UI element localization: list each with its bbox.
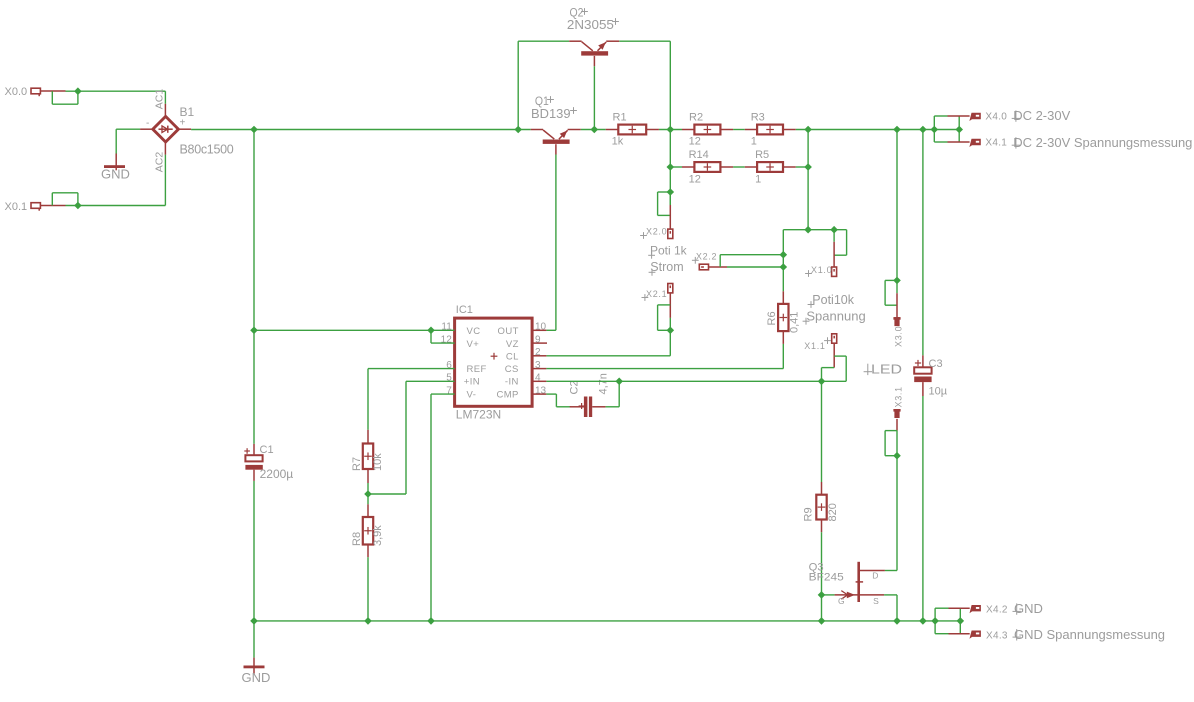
svg-text:X0.0: X0.0 (5, 86, 28, 98)
svg-text:BF245: BF245 (809, 572, 844, 584)
ground GND bottom (242, 621, 271, 685)
wire R7 R8 junction (368, 381, 455, 504)
junction rail gate (818, 617, 826, 625)
connector pin X0.1 (5, 201, 66, 213)
node label GND right (1013, 601, 1043, 616)
wire R14 row (670, 130, 808, 206)
svg-text:12: 12 (689, 136, 701, 148)
connector pin X4.2 (949, 605, 1008, 616)
svg-text:4,7n: 4,7n (598, 373, 610, 394)
connector pin X0.0 (5, 86, 66, 98)
resistor R14 12 (682, 149, 733, 185)
wire X3.1 loop (885, 431, 897, 456)
svg-text:GND Spannungsmessung: GND Spannungsmessung (1014, 627, 1165, 642)
wire -IN (546, 380, 821, 382)
junction X4.2 loop (957, 617, 965, 625)
wire -IN down to R9 (821, 381, 823, 482)
svg-text:G: G (838, 596, 845, 606)
svg-text:X0.1: X0.1 (5, 201, 28, 213)
wire R9 to Q3 gate (821, 532, 823, 595)
wire X2.1 loop (658, 305, 671, 330)
resistor R3 1 (745, 112, 796, 148)
IC1 left pin names (464, 326, 487, 400)
junction rail C3 (919, 617, 927, 625)
svg-text:2200µ: 2200µ (260, 467, 294, 481)
svg-text:-IN: -IN (505, 377, 519, 388)
junction bus X4 branch (931, 126, 939, 134)
wire input rail down (253, 130, 255, 621)
capacitor C1 2200u (244, 444, 293, 481)
svg-text:GND: GND (1014, 601, 1043, 616)
resistor R7 10k (351, 430, 384, 483)
wire X4.2 loop (935, 608, 960, 634)
svg-text:Poti 1k: Poti 1k (650, 244, 688, 258)
svg-text:DC 2-30V Spannungsmessung: DC 2-30V Spannungsmessung (1013, 135, 1192, 150)
svg-text:D: D (872, 571, 879, 581)
junction rail Q3 source (893, 617, 901, 625)
junction bus Q2 base (591, 126, 599, 134)
svg-text:R6: R6 (766, 311, 778, 325)
svg-text:LED: LED (871, 362, 902, 377)
svg-text:OUT: OUT (498, 326, 519, 337)
capacitor C2 4,7n (569, 373, 610, 417)
node label DC 2-30V (1012, 108, 1071, 123)
capacitor C3 10u (914, 355, 948, 397)
svg-text:X3.1: X3.1 (894, 386, 904, 407)
svg-text:R2: R2 (689, 112, 703, 124)
junction R6 X2.2 upper (780, 251, 788, 259)
op-amp IC1 LM723N box (455, 304, 532, 422)
wire Q3 source down (884, 595, 897, 621)
resistor R5 1 (745, 149, 796, 185)
junction bus x254 (250, 126, 258, 134)
svg-text:C1: C1 (260, 444, 274, 456)
svg-text:820: 820 (827, 503, 839, 521)
svg-text:R3: R3 (751, 112, 765, 124)
wire Q1 base to IC1 OUT (546, 155, 556, 331)
wire VC V+ to bus (254, 330, 455, 343)
junction rail X4 (931, 617, 939, 625)
svg-text:CMP: CMP (496, 389, 518, 400)
svg-text:0,41: 0,41 (789, 312, 801, 333)
wire CL to X2.1 (546, 330, 670, 356)
resistor R2 12 (682, 112, 733, 148)
IC1 pin stubs right (532, 330, 547, 394)
junction bus R1 right (667, 126, 675, 134)
svg-text:V+: V+ (467, 339, 480, 350)
junction bus Q2 collector (514, 126, 522, 134)
svg-text:VZ: VZ (506, 339, 519, 350)
connector pin X2.2 (692, 252, 727, 270)
svg-text:REF: REF (467, 364, 487, 375)
resistor R6 0,41 (766, 291, 801, 344)
junction poti10k X1.0 (830, 226, 838, 234)
junction rail x431 (427, 617, 435, 625)
svg-text:CL: CL (506, 352, 519, 363)
junction X3.0 node (893, 277, 901, 285)
junction X3.1 node (893, 452, 901, 460)
wire CMP to C2 (546, 394, 570, 407)
svg-text:X1.1: X1.1 (804, 341, 825, 351)
svg-text:3,9k: 3,9k (372, 525, 384, 546)
svg-text:B80c1500: B80c1500 (180, 143, 234, 157)
wire REF to R7 (368, 369, 455, 430)
junction poti10k R5 (804, 226, 812, 234)
svg-text:R5: R5 (755, 149, 769, 161)
IC1 right pin names (496, 326, 518, 400)
junction R6 X2.2 lower (780, 263, 788, 271)
svg-text:Poti10k: Poti10k (812, 293, 854, 307)
wire C3 to ground rail (922, 396, 924, 621)
label Poti 1k Strom (648, 244, 687, 276)
wire Q3 drain up (885, 456, 897, 571)
wire R5 right down (807, 130, 809, 230)
wire X2.0 loop (658, 192, 671, 215)
svg-text:+: + (180, 118, 186, 129)
junction X4 loop (955, 126, 963, 134)
wire ground rail (254, 620, 935, 622)
wire bus down to C3 (922, 130, 924, 356)
junction X2.1 node (667, 327, 675, 335)
svg-text:GND: GND (101, 167, 130, 182)
svg-text:IC1: IC1 (456, 304, 473, 316)
wire X3.0 loop (885, 280, 897, 305)
connector pin X3.1 (893, 386, 903, 430)
junction -IN C2 (615, 378, 623, 386)
connector pin X2.1 (642, 284, 673, 318)
bridge rectifier B1 B80c1500 (140, 89, 234, 173)
svg-text:LM723N: LM723N (456, 408, 501, 422)
svg-text:X3.0: X3.0 (894, 326, 904, 347)
node label GND Spannungsmessung (1013, 627, 1166, 642)
svg-text:X4.1: X4.1 (985, 138, 1007, 149)
wire Q2 base down (593, 66, 595, 129)
wire X2.2 to R6 top (720, 255, 783, 267)
transistor Q1 BD139 (531, 94, 581, 155)
junction R14 left (667, 163, 675, 171)
svg-text:R8: R8 (351, 532, 363, 546)
junction bus C3 branch (919, 126, 927, 134)
node label DC 2-30V Spannungsmessung (1012, 135, 1193, 150)
junction rail x368 (364, 617, 372, 625)
svg-text:B1: B1 (180, 105, 195, 119)
resistor R8 3,9k (351, 504, 384, 557)
svg-text:X4.3: X4.3 (986, 630, 1008, 641)
wire bridge minus to GND (116, 129, 140, 153)
junction x254 VC (250, 327, 258, 335)
svg-text:Spannung: Spannung (806, 309, 865, 324)
svg-text:GND: GND (242, 670, 271, 685)
connector pin X3.0 (893, 293, 903, 347)
transistor Q2 2N3055 (567, 6, 619, 67)
IC1 pin numbers left (441, 322, 453, 397)
svg-text:AC2: AC2 (153, 152, 165, 173)
connector pin X4.3 (949, 630, 1008, 641)
svg-text:X2.0: X2.0 (646, 227, 667, 237)
junction rail x254 (250, 617, 258, 625)
wire R6 top (782, 230, 784, 292)
svg-text:1k: 1k (612, 136, 624, 148)
IC1 pin numbers right (535, 322, 547, 397)
junction bus R3 right (804, 126, 812, 134)
svg-text:R1: R1 (613, 112, 627, 124)
junction X0.0 (74, 87, 82, 95)
label Poti10k Spannung (803, 293, 866, 325)
junction X2.0 node (667, 188, 675, 196)
svg-text:R9: R9 (803, 507, 815, 521)
label LED (864, 362, 902, 377)
wire X0.1 to bridge AC2 (52, 155, 165, 206)
svg-text:S: S (873, 596, 879, 606)
svg-text:X2.2: X2.2 (696, 252, 717, 262)
svg-text:X4.2: X4.2 (986, 605, 1008, 616)
junction bus LED branch (893, 126, 901, 134)
junction -IN X1.1 (818, 378, 826, 386)
svg-text:12: 12 (689, 173, 701, 185)
junction VC wire (427, 327, 435, 335)
resistor R9 820 (803, 482, 840, 532)
svg-text:-: - (146, 118, 149, 129)
resistor R1 1k (606, 112, 659, 148)
junction X0.1 (74, 202, 82, 210)
connector pin X1.1 (804, 334, 836, 368)
svg-text:2N3055: 2N3055 (567, 17, 614, 32)
svg-text:+IN: +IN (464, 377, 480, 388)
connector pin X2.0 (640, 205, 673, 239)
wire Q2 collector rail (518, 41, 569, 129)
wire poti10k node (783, 230, 846, 256)
svg-text:X1.0: X1.0 (811, 265, 832, 275)
svg-text:10k: 10k (372, 453, 384, 471)
svg-text:AC1: AC1 (153, 89, 165, 110)
junction R7 R8 (364, 490, 372, 498)
wire bus down to X3.0 (896, 130, 898, 281)
wire gate to ground rail (821, 595, 823, 621)
svg-text:10µ: 10µ (929, 386, 948, 398)
connector pin X1.0 (805, 230, 837, 277)
junction R5 right (804, 163, 812, 171)
svg-text:DC 2-30V: DC 2-30V (1013, 108, 1070, 123)
connector pin X4.0 (948, 112, 1008, 123)
svg-text:R14: R14 (689, 149, 709, 161)
transistor Q3 BF245 (809, 561, 885, 606)
wire X4 top loop (934, 116, 959, 142)
svg-text:C2: C2 (569, 380, 581, 394)
junction Q3 gate (818, 591, 826, 599)
svg-text:R7: R7 (351, 457, 363, 471)
wire X1.1 to -IN (822, 356, 847, 381)
wire X0.0 to bridge AC1 (52, 91, 165, 104)
wire R8 to ground rail (367, 557, 369, 621)
ground GND top (101, 154, 130, 182)
svg-text:C3: C3 (929, 358, 943, 370)
svg-text:V-: V- (467, 389, 477, 400)
svg-text:VC: VC (467, 326, 481, 337)
svg-text:1: 1 (755, 173, 761, 185)
wire DC bus from bridge (191, 129, 934, 131)
connector pin X4.1 (948, 138, 1008, 149)
wire V- to ground rail (431, 394, 455, 621)
svg-text:X4.0: X4.0 (985, 112, 1007, 123)
svg-text:BD139: BD139 (531, 106, 571, 121)
wire C2 to -IN (606, 381, 620, 407)
svg-text:CS: CS (505, 364, 519, 375)
wire Q2 emitter rail (619, 41, 670, 129)
svg-text:X2.1: X2.1 (646, 289, 667, 299)
svg-text:1: 1 (751, 136, 757, 148)
wire CS to R6 (546, 344, 783, 369)
